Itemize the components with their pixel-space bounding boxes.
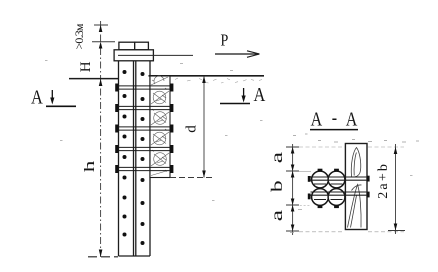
svg-text:P: P (221, 31, 229, 49)
svg-text:d: d (184, 125, 200, 133)
svg-text:>0.3м: >0.3м (72, 23, 86, 49)
svg-text:a: a (268, 209, 286, 221)
svg-text:H: H (78, 61, 94, 72)
svg-text:b: b (268, 180, 286, 192)
svg-text:A: A (31, 86, 44, 108)
svg-text:A: A (254, 84, 267, 106)
svg-text:a: a (268, 151, 286, 163)
svg-text:2a+b: 2a+b (376, 162, 391, 199)
svg-text:A: A (311, 108, 323, 130)
svg-text:h: h (82, 160, 98, 172)
svg-text:A: A (346, 108, 358, 130)
svg-text:-: - (332, 106, 337, 128)
